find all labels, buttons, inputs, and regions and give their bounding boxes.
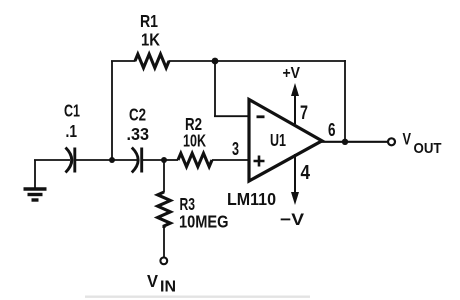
resistor R2: [178, 153, 212, 166]
svg-text:10K: 10K: [183, 131, 206, 151]
svg-text:LM110: LM110: [227, 189, 276, 209]
wire: feedback right vertical to output node: [344, 60, 346, 142]
wire: R3 to VIN terminal: [163, 228, 165, 258]
wire: R2 to op-amp plus input: [212, 159, 249, 161]
wire: node B to R2: [164, 159, 178, 161]
svg-text:V: V: [147, 271, 158, 291]
-V supply arrow (pin 4): [294, 154, 296, 193]
resistor R1: [135, 54, 169, 68]
wire: node A to C2: [112, 159, 137, 161]
node C junction (R1 rail): [212, 58, 219, 65]
minus input symbol: [257, 115, 265, 118]
svg-text:3: 3: [232, 139, 239, 159]
svg-text:−V: −V: [280, 210, 305, 229]
VOUT terminal: [388, 138, 395, 145]
wire: C2 to node B: [143, 159, 166, 161]
op-amp U1: [249, 100, 322, 182]
svg-text:R1: R1: [140, 11, 158, 31]
svg-text:C1: C1: [64, 101, 80, 121]
svg-text:4: 4: [301, 162, 311, 184]
wire: ground to C1: [34, 159, 70, 161]
svg-text:OUT: OUT: [414, 140, 442, 157]
faint scan streak: [85, 296, 310, 298]
node B junction: [161, 157, 167, 163]
svg-text:7: 7: [300, 102, 308, 124]
svg-text:C2: C2: [129, 105, 146, 125]
plus input symbol: [254, 156, 265, 167]
wire: R1 rail right segment to feedback corner: [169, 60, 346, 62]
resistor R3: [158, 192, 171, 228]
svg-text:IN: IN: [160, 279, 176, 296]
svg-text:1K: 1K: [141, 30, 160, 50]
wire: C1 to node A: [76, 159, 113, 161]
wire: ground drop: [34, 160, 36, 188]
svg-text:10MEG: 10MEG: [179, 212, 229, 232]
wire: feedback drop from node C to minus input: [214, 61, 249, 116]
node A junction: [109, 157, 115, 163]
ground: [24, 189, 47, 200]
VIN terminal: [160, 257, 167, 264]
svg-text:.1: .1: [66, 121, 78, 141]
svg-text:U1: U1: [270, 130, 286, 150]
svg-text:V: V: [403, 130, 412, 149]
wire: node A up to R1 rail: [111, 61, 113, 160]
svg-text:+V: +V: [283, 65, 301, 82]
svg-text:.33: .33: [127, 124, 150, 144]
+V supply arrow (pin 7): [294, 92, 296, 124]
capacitor C2: [132, 148, 142, 173]
svg-text:6: 6: [328, 120, 336, 140]
output node junction: [342, 139, 348, 145]
wire: node B down to R3: [163, 160, 165, 193]
capacitor C1: [66, 148, 75, 173]
wire: op-amp output to VOUT terminal: [321, 141, 388, 143]
wire: R1 rail left segment: [111, 60, 136, 62]
